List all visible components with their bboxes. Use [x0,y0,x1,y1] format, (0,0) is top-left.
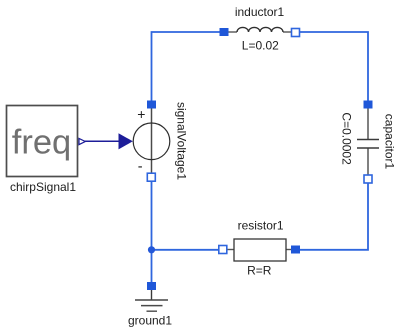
pin square inductor1.p (filled) [220,28,229,36]
wire right rail (capacitor1.n down to bottom rail) [297,181,368,250]
pin square capacitor1.n (hollow) [364,175,372,183]
pin square resistor1.n (filled) [291,246,300,254]
label signalVoltage1 (rotated) [175,102,189,180]
label resistor1 [238,218,284,232]
svg-text:signalVoltage1: signalVoltage1 [175,102,189,180]
wire bottom-left rail (resistor1.p to junction to signalVoltage1.n) [152,179,222,250]
svg-text:R=R: R=R [247,264,272,278]
pin square ground1.p (filled) [147,282,156,290]
svg-text:freq: freq [12,124,71,162]
wire inductor1.n to capacitor1.p [295,32,368,102]
pin square capacitor1.p (filled) [364,101,373,109]
wire junction to ground1 [151,250,153,284]
label - (negative pin of signalVoltage1) [138,159,143,175]
inductor inductor1 coil [237,27,283,32]
voltage source signalVoltage1 lead line [151,108,153,174]
svg-text:-: - [138,159,143,175]
svg-text:capacitor1: capacitor1 [383,114,397,170]
wire signalVoltage1.p to inductor1.p (top-left rail) [152,32,225,103]
pin square resistor1.p (hollow) [219,246,227,254]
svg-text:chirpSignal1: chirpSignal1 [10,180,76,194]
resistor resistor1 leads [227,249,292,251]
svg-text:L=0.02: L=0.02 [242,39,279,53]
block chirpSignal1 (freq source) [7,106,78,177]
svg-text:ground1: ground1 [128,314,172,328]
label ground1 [128,314,172,328]
label L=0.02 [242,39,279,53]
capacitor capacitor1 plates [357,140,379,149]
resistor resistor1 body [234,239,286,261]
svg-text:+: + [137,106,145,122]
label R=R [247,264,272,278]
svg-text:inductor1: inductor1 [235,5,285,19]
label inductor1 [235,5,285,19]
voltage source signalVoltage1 circle [133,123,170,160]
signal wire chirpSignal1.y to signalVoltage1.v [84,140,120,142]
svg-text:resistor1: resistor1 [238,218,284,232]
pin square signalVoltage1.n (hollow) [147,173,155,181]
label + (positive pin of signalVoltage1) [137,106,145,122]
arrowhead of signal wire [119,133,133,149]
label capacitor1 (rotated) [383,114,397,170]
svg-text:C=0.0002: C=0.0002 [340,112,354,165]
ground ground1 symbol [135,290,168,311]
node junction dot [148,246,155,253]
pin square inductor1.n (hollow) [292,29,300,37]
pin square signalVoltage1.p (filled) [147,101,156,109]
output connector chirpSignal1.y [79,139,85,145]
label chirpSignal1 [10,180,76,194]
capacitor capacitor1 leads [367,108,369,175]
inductor inductor1 leads [228,31,292,33]
label C=0.0002 (rotated) [340,112,354,165]
